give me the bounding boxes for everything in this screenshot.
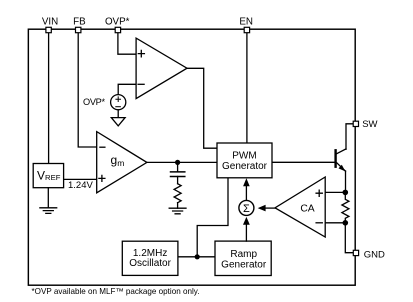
pin EN [244,27,249,32]
ground earth (compensation) [169,208,186,214]
resistor R sense [342,192,349,222]
comparator minus sign [138,83,144,85]
ground earth (VREF) [40,208,57,214]
op-amp gm error amplifier [97,132,147,193]
wire gm output to PWM Generator [147,161,217,163]
wire PWM output to transistor base [272,161,334,163]
gm plus sign [99,175,105,181]
op-amp CA current amplifier [275,177,325,237]
pin OVP* [115,27,120,32]
transistor Q1 emitter [337,163,346,171]
CA plus sign [316,190,322,196]
svg-text:FB: FB [73,17,86,28]
package outline [28,29,355,285]
wire OVP source to comparator minus [118,84,136,94]
box Ramp Generator [215,241,271,275]
svg-text:EN: EN [239,17,253,28]
svg-text:CA: CA [300,204,314,215]
wire emitter to current sense node [345,171,347,192]
svg-text:OVP*: OVP* [83,97,106,107]
summer sigma [239,200,254,215]
pin SW [353,121,358,126]
source plus sign [116,97,121,102]
capacitor C comp [171,172,185,177]
box PWM Generator [217,143,272,178]
box VREF [33,164,63,188]
CA minus sign [316,222,322,224]
transistor Q1 base bar [334,150,336,166]
svg-text:Generator: Generator [222,161,268,172]
voltage source OVP [111,95,126,110]
arrow CA to summer [265,207,275,209]
transistor Q1 emitter arrow [339,165,346,172]
wire CA minus input [325,222,345,224]
svg-text:OVP*: OVP* [105,17,130,28]
wire oscillator to ramp generator [178,256,215,258]
arrow ramp to summer [245,224,247,241]
ground signal (OVP source) [111,118,125,126]
svg-text:GND: GND [364,249,385,260]
gm minus sign [100,146,105,148]
wire EN to PWM Generator [246,32,248,143]
svg-text:VIN: VIN [42,17,58,28]
pin FB [76,27,81,32]
resistor R comp [174,184,181,203]
svg-text:Σ: Σ [243,203,250,215]
node CA minus junction [343,220,349,226]
wire comparator output to PWM Generator [187,68,217,148]
svg-text:*OVP available on MLF™ package: *OVP available on MLF™ package option on… [32,287,200,296]
node oscillator junction [195,254,200,259]
pin VIN [46,27,51,32]
node compensation junction [175,160,180,165]
wire FB to gm minus [78,32,97,147]
wire VIN to VREF [48,32,50,164]
svg-text:Generator: Generator [221,259,267,270]
wire sense resistor to GND pin [345,223,353,253]
op-amp OVP comparator [136,38,187,99]
wire VREF to gm plus [64,178,97,180]
transistor Q1 collector [337,149,346,154]
pin GND [353,250,358,255]
wire cap to resistor [177,177,179,184]
wire CA plus input [325,191,345,193]
wire collector to SW [346,124,353,149]
wire clock to PWM Generator [197,178,228,257]
wire VREF to ground [47,188,49,208]
box 1.2MHz Oscillator [122,241,178,275]
node CA plus junction [343,190,349,196]
svg-text:PWM: PWM [232,151,256,162]
wire resistor to ground [177,203,179,209]
wire source to ground [117,110,119,118]
svg-text:Oscillator: Oscillator [129,258,171,269]
svg-text:SW: SW [362,119,377,130]
wire OVP* to comparator plus [118,32,136,54]
wire compensation branch [177,162,179,171]
arrow summer to PWM [245,184,247,200]
svg-text:1.24V: 1.24V [68,180,93,191]
comparator plus sign [138,50,144,57]
source minus sign [116,106,121,108]
